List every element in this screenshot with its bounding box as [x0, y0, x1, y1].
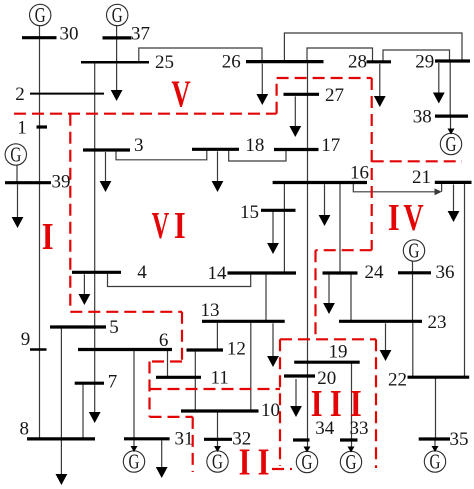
line 16-21 arrowhead — [435, 188, 442, 195]
load arrow bus 29 — [433, 63, 445, 104]
zone label II — [239, 441, 270, 483]
svg-text:14: 14 — [208, 263, 228, 284]
wire line 16-17 — [307, 150, 309, 183]
svg-text:18: 18 — [245, 135, 264, 156]
load arrow bus 24 — [323, 275, 335, 314]
load arrow bus 28 — [374, 64, 386, 107]
zone boundary III east — [375, 339, 377, 468]
svg-text:37: 37 — [131, 24, 150, 45]
wire line 6-31 — [133, 350, 135, 439]
svg-text:5: 5 — [109, 317, 119, 338]
svg-text:G: G — [112, 4, 123, 27]
bus 24 — [323, 271, 358, 274]
wire generator G34 lead — [307, 440, 309, 451]
svg-text:13: 13 — [201, 300, 220, 321]
wire generator G36 lead — [412, 261, 414, 273]
wire line 17-18 — [229, 149, 286, 161]
svg-text:17: 17 — [321, 135, 340, 156]
svg-text:21: 21 — [412, 167, 431, 188]
bus 9 — [30, 348, 47, 351]
wire line 10-11 — [194, 377, 196, 411]
zone boundary IV west — [371, 78, 373, 250]
wire line 7-8 — [82, 383, 84, 439]
svg-text:I: I — [258, 441, 270, 483]
bus 19 — [294, 361, 360, 364]
bus 32 — [204, 438, 232, 441]
wire line 15-16 — [283, 183, 285, 211]
wire line 8-9 — [39, 350, 41, 439]
zone boundary III bottom foot — [272, 468, 292, 470]
zone label I — [42, 216, 54, 258]
load arrow bus 3 — [100, 152, 112, 192]
svg-text:27: 27 — [325, 85, 344, 106]
svg-text:31: 31 — [175, 429, 194, 450]
wire line 23-24 — [350, 273, 352, 321]
bus 35 — [419, 437, 450, 440]
bus 2 — [30, 93, 104, 95]
wire line 2-25 — [94, 62, 96, 93]
bus 16 — [273, 181, 367, 184]
svg-text:35: 35 — [450, 429, 469, 450]
load arrow bus 21 — [448, 184, 460, 222]
bus 14 — [228, 271, 297, 274]
bus 13 — [202, 320, 285, 323]
svg-text:V: V — [403, 197, 423, 239]
svg-text:26: 26 — [222, 51, 241, 72]
wire line 16-21 riser — [441, 184, 443, 192]
bus 39 — [5, 181, 51, 184]
svg-text:G: G — [129, 450, 140, 473]
load arrow bus 15 — [267, 211, 279, 254]
zone label VI — [152, 205, 186, 247]
wire line 22-35 — [435, 377, 437, 439]
load arrow bus 4 — [79, 274, 91, 305]
svg-text:I: I — [388, 197, 400, 239]
wire line 5-8 — [60, 327, 62, 439]
wire line 14-15 — [283, 210, 285, 273]
svg-text:I: I — [350, 383, 362, 425]
svg-text:10: 10 — [261, 400, 280, 421]
zone boundary II west lower — [192, 417, 194, 472]
svg-text:38: 38 — [413, 107, 432, 128]
bus 8 — [27, 437, 95, 440]
bus 1 — [37, 125, 48, 128]
generator G35 — [424, 446, 445, 473]
zone boundary II step — [150, 360, 183, 362]
wire line 12-13 — [216, 321, 218, 350]
bus 15 — [261, 209, 296, 212]
wire generator G31 lead — [133, 439, 135, 451]
zone boundary II west — [148, 362, 150, 417]
zone boundary VI south-west — [70, 311, 182, 313]
wire line 16-21 — [353, 183, 437, 192]
wire generator G33 lead — [351, 440, 353, 451]
wire line 6-7 — [94, 350, 96, 384]
wire line 21-22 — [464, 182, 466, 377]
bus 33 — [340, 438, 358, 441]
wire line 4-5 — [94, 272, 96, 327]
load arrow bus 27 — [289, 96, 301, 137]
svg-text:23: 23 — [428, 312, 447, 333]
load arrow bus 31 — [156, 440, 168, 478]
wire line 1-39 — [39, 127, 41, 183]
wire line 6-11 — [167, 350, 169, 378]
wire generator G35 lead — [434, 439, 436, 450]
svg-text:I: I — [174, 205, 186, 247]
zone boundary V-east top — [277, 77, 372, 79]
bus 7 — [75, 382, 104, 385]
zone boundary I east — [69, 114, 71, 312]
svg-text:G: G — [212, 450, 223, 473]
bus 38 — [435, 114, 468, 117]
svg-text:G: G — [430, 450, 441, 473]
svg-text:36: 36 — [436, 262, 455, 283]
zone label IV — [388, 197, 424, 239]
zone boundary II west upper — [181, 312, 183, 362]
svg-text:4: 4 — [137, 262, 147, 283]
wire line 29-38 — [449, 61, 451, 116]
svg-text:G: G — [35, 4, 46, 27]
wire line 9-39 — [39, 183, 41, 350]
load arrow bus 25 — [111, 64, 123, 101]
load arrow bus 8 — [56, 441, 68, 486]
svg-text:I: I — [42, 216, 54, 258]
zone label V — [171, 74, 190, 116]
svg-text:12: 12 — [227, 339, 246, 360]
svg-text:V: V — [171, 74, 190, 116]
wire line 25-37 — [116, 38, 118, 62]
wire line 17-27 — [307, 94, 309, 149]
generator G39 — [5, 143, 26, 166]
generator G34 — [296, 447, 317, 474]
bus 25 — [81, 61, 149, 64]
bus 12 — [187, 348, 224, 351]
zone boundary II top — [150, 388, 281, 390]
wire generator G30 lead — [39, 26, 41, 38]
wire line 4-14 — [108, 272, 251, 286]
wire line 3-18 — [116, 149, 207, 160]
wire line 16-19 — [307, 183, 309, 363]
wire line 23-36 — [412, 273, 414, 322]
bus 20 — [284, 374, 315, 377]
bus 37 — [103, 36, 132, 39]
zone boundary II step lower — [150, 416, 193, 418]
wire line 22-23 — [412, 321, 414, 377]
svg-text:6: 6 — [159, 330, 169, 351]
wire line 19-20 — [307, 362, 309, 376]
wire line 3-4 — [94, 150, 96, 272]
bus 26 — [246, 60, 324, 63]
wire line 25-26 — [139, 48, 262, 62]
svg-text:V: V — [152, 205, 170, 247]
wire line 2-30 — [39, 38, 41, 94]
svg-text:25: 25 — [155, 52, 174, 73]
bus 22 — [408, 376, 470, 379]
bus 27 — [284, 93, 320, 96]
load arrow bus 13 — [267, 323, 279, 367]
zone boundary V bottom — [14, 113, 277, 115]
svg-text:28: 28 — [348, 52, 367, 73]
load arrow bus 7 — [89, 383, 101, 423]
load arrow bus 26 — [256, 64, 268, 105]
generator G37 — [107, 4, 128, 27]
wire line 13-14 — [265, 273, 267, 321]
wire line 26-29 — [284, 33, 462, 62]
load arrow bus 20 — [290, 379, 302, 417]
wire generator G32 lead — [217, 439, 219, 451]
load arrow bus 16 — [319, 184, 331, 226]
svg-text:29: 29 — [415, 52, 434, 73]
bus 10 — [181, 409, 259, 412]
svg-text:I: I — [239, 441, 251, 483]
zone boundary IV north — [372, 160, 462, 162]
wire line 26-27 — [307, 62, 309, 94]
bus 29 — [435, 59, 470, 62]
svg-text:19: 19 — [329, 341, 348, 362]
load arrow bus 39 — [12, 184, 24, 228]
wire line 2-3 — [94, 94, 96, 150]
wire line 20-34 — [307, 376, 309, 440]
bus 3 — [83, 148, 130, 151]
bus 31 — [124, 437, 170, 440]
svg-text:7: 7 — [108, 372, 118, 393]
svg-text:G: G — [346, 451, 357, 474]
svg-text:1: 1 — [17, 118, 27, 139]
zone boundary IV west lower — [314, 250, 316, 339]
svg-text:G: G — [10, 143, 21, 166]
bus 34 — [293, 438, 310, 441]
wire generator G37 lead — [116, 26, 118, 38]
svg-text:11: 11 — [210, 368, 228, 389]
bus 23 — [339, 320, 422, 323]
zone boundary V right riser — [276, 78, 278, 114]
generator G36 — [403, 239, 424, 262]
load arrow bus 23 — [380, 323, 392, 361]
svg-text:2: 2 — [15, 84, 25, 105]
wire line 28-29 — [383, 50, 450, 62]
bus 17 — [274, 148, 319, 151]
generator G32 — [207, 446, 228, 473]
svg-text:I: I — [330, 383, 342, 425]
bus 28 — [367, 60, 392, 63]
bus 30 — [22, 36, 57, 39]
bus 21 — [435, 181, 472, 184]
svg-text:3: 3 — [134, 135, 144, 156]
wire generator G38 lead — [450, 116, 452, 133]
svg-text:G: G — [302, 451, 313, 474]
wire line 26-28 — [307, 48, 373, 62]
wire line 5-6 — [94, 327, 96, 350]
svg-text:G: G — [446, 133, 457, 156]
wire line 10-13 — [250, 321, 252, 411]
wire line 19-33 — [351, 362, 353, 440]
generator G38 — [440, 129, 461, 156]
bus 4 — [72, 271, 121, 274]
zone boundary IV bottom step — [316, 249, 372, 251]
load arrow bus 18 — [212, 151, 224, 192]
wire line 16-24 — [339, 183, 341, 274]
svg-text:I: I — [311, 383, 323, 425]
svg-text:39: 39 — [52, 172, 71, 193]
bus 18 — [192, 148, 239, 151]
zone label III — [311, 383, 362, 425]
wire line 10-32 — [217, 411, 219, 439]
svg-text:8: 8 — [20, 419, 30, 440]
svg-text:G: G — [409, 239, 420, 262]
svg-text:30: 30 — [60, 24, 79, 45]
bus 11 — [156, 376, 201, 379]
svg-text:24: 24 — [365, 262, 385, 283]
bus 36 — [398, 271, 431, 274]
generator G30 — [30, 4, 51, 27]
svg-text:22: 22 — [388, 370, 407, 391]
bus 6 — [78, 348, 172, 351]
generator G33 — [340, 447, 361, 474]
svg-text:9: 9 — [21, 329, 31, 350]
wire generator G39 lead — [16, 165, 18, 183]
wire line 1-2 — [39, 94, 41, 127]
zone boundary III west — [279, 339, 281, 466]
bus 5 — [50, 325, 106, 328]
wire line 11-12 — [194, 350, 196, 377]
svg-text:16: 16 — [350, 163, 369, 184]
zone boundary III top — [280, 338, 376, 340]
svg-text:15: 15 — [240, 202, 259, 223]
generator G31 — [123, 446, 144, 473]
